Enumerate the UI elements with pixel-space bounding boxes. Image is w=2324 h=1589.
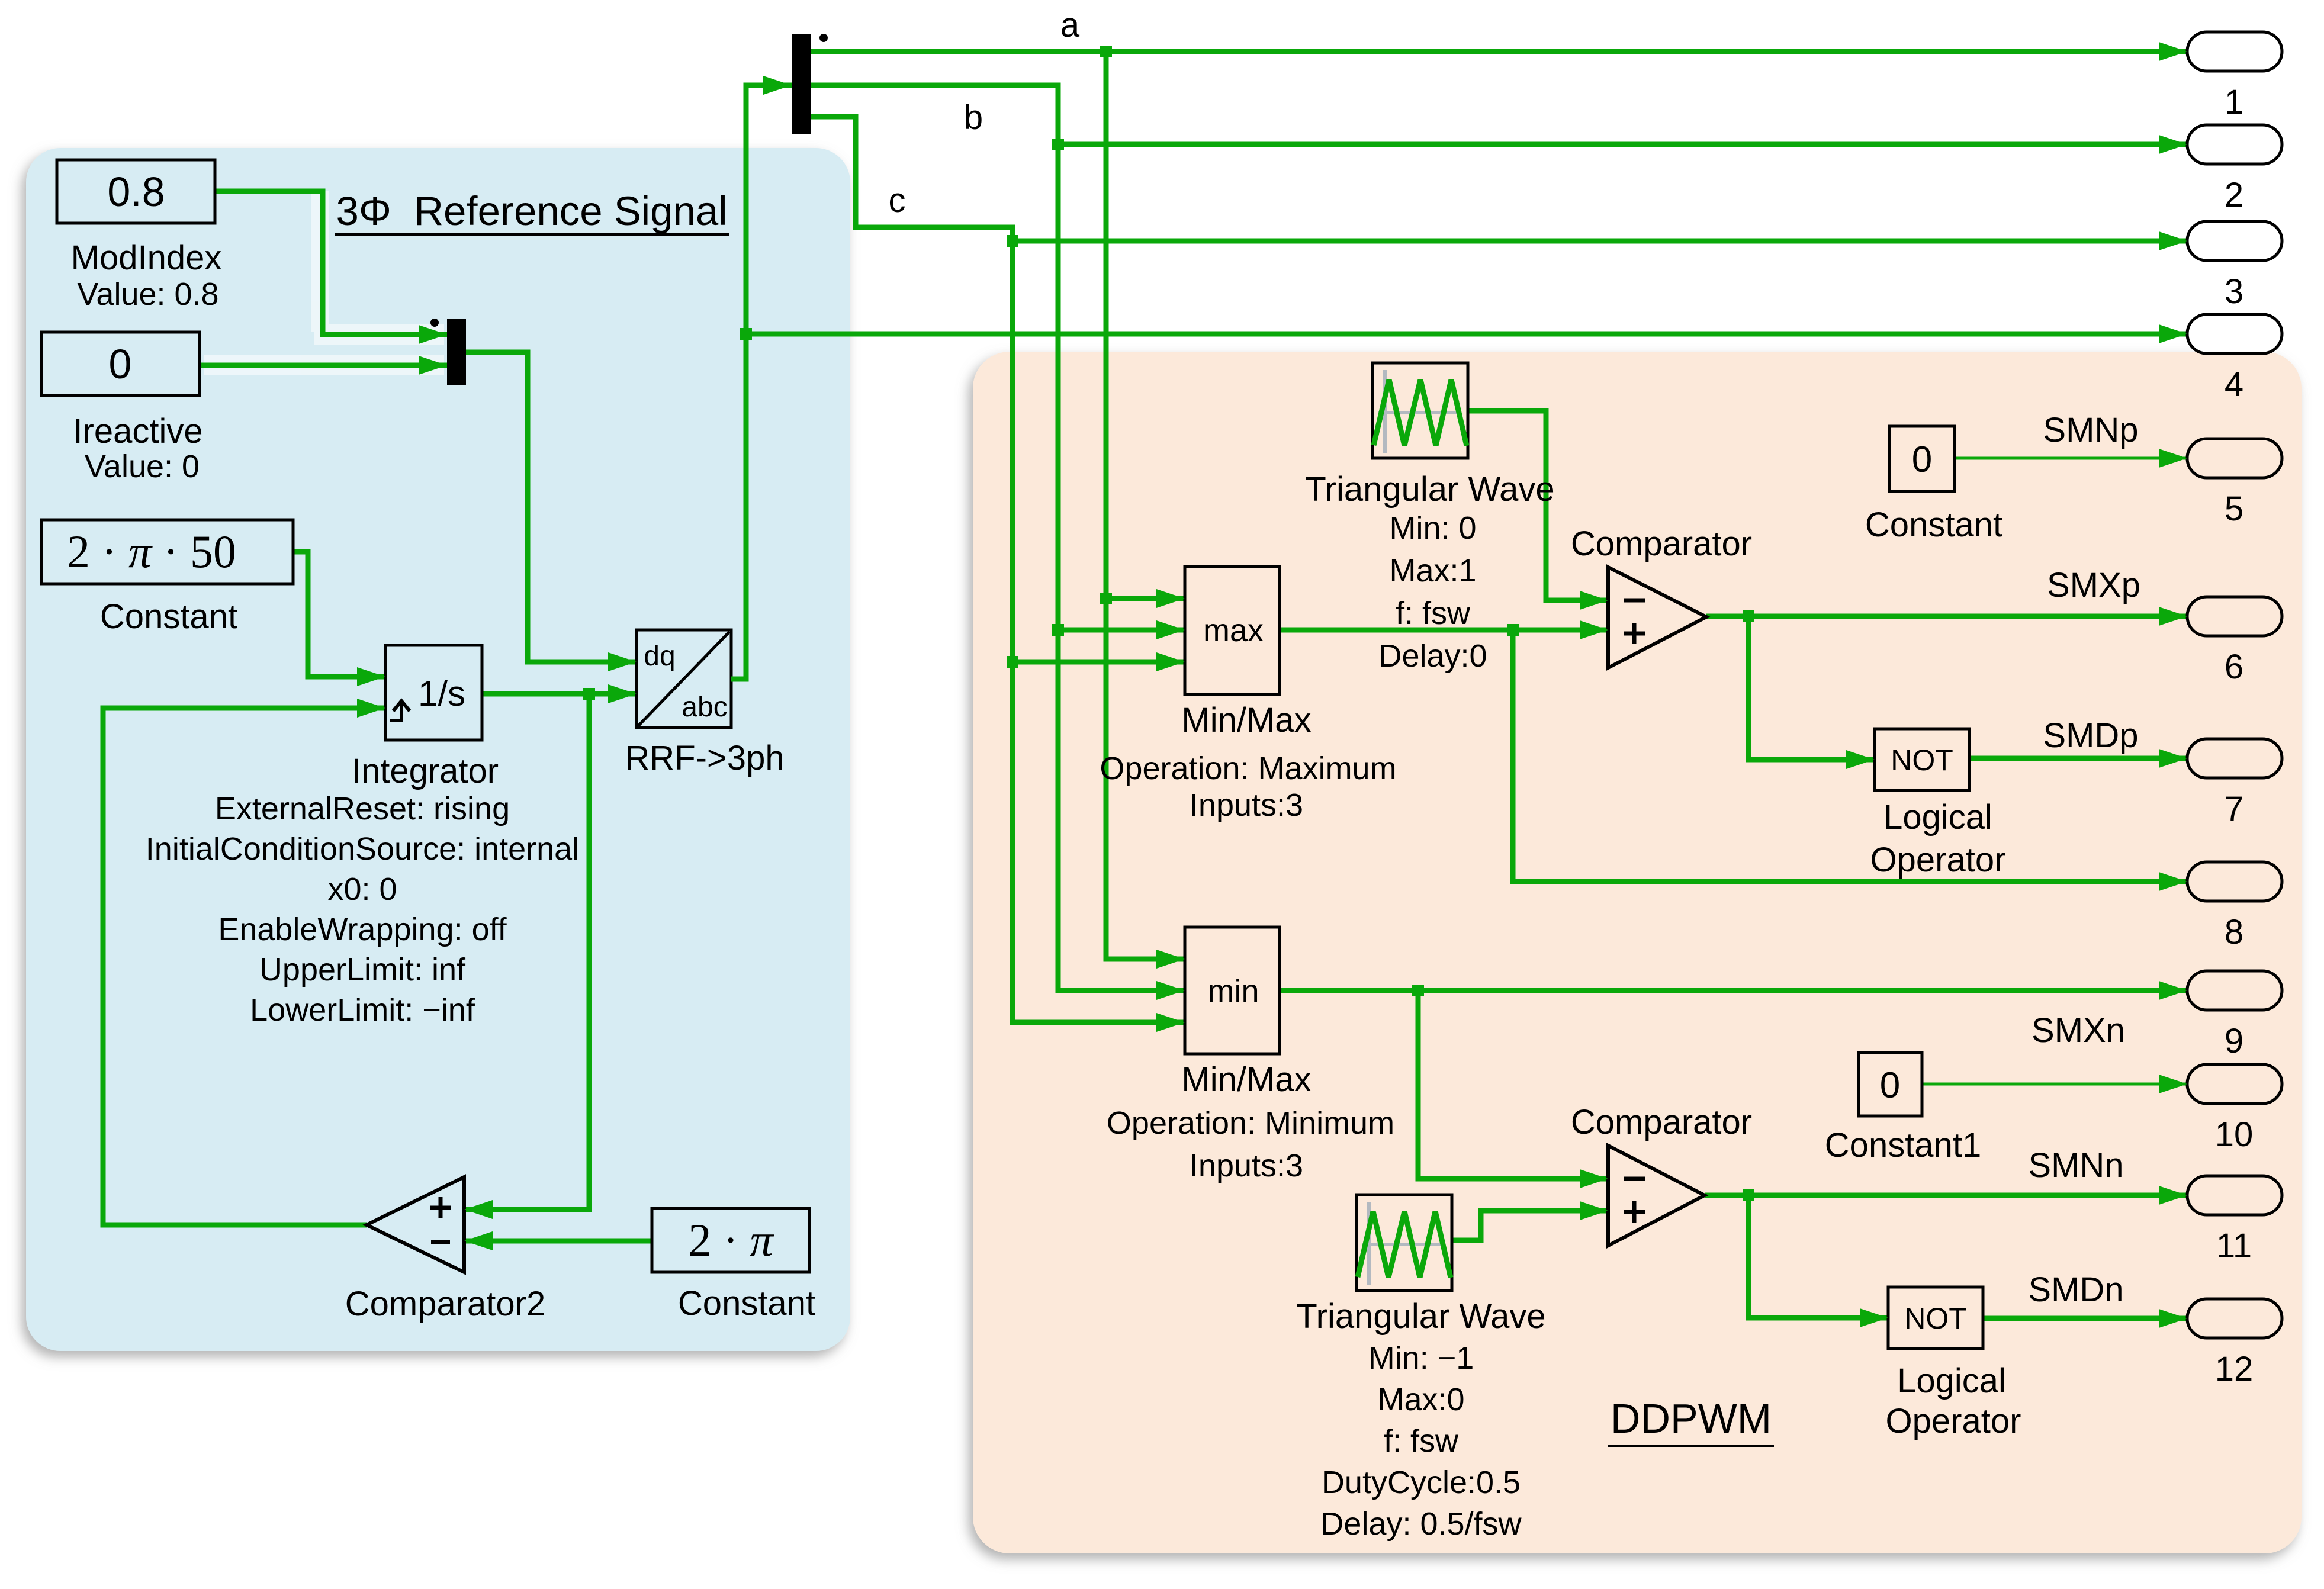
wire max tap down to outport 8	[1513, 630, 2187, 882]
node b out2 tap	[1052, 139, 1064, 150]
outport 3	[2159, 221, 2282, 311]
block min Min/Max	[1107, 927, 1394, 1183]
svg-text:Triangular Wave: Triangular Wave	[1305, 470, 1554, 509]
outport 6	[2159, 597, 2282, 686]
arrow into RRF abc	[608, 684, 637, 703]
svg-text:NOT: NOT	[1891, 744, 1953, 777]
block max Min/Max	[1100, 567, 1396, 823]
svg-text:Operation: Minimum: Operation: Minimum	[1107, 1105, 1394, 1141]
arrow into integrator in1	[357, 667, 385, 686]
svg-text:ModIndex: ModIndex	[71, 239, 222, 277]
arrow into max in3	[1156, 652, 1185, 671]
outport 8	[2159, 862, 2282, 951]
svg-text:Triangular Wave: Triangular Wave	[1296, 1297, 1545, 1336]
svg-text:Min/Max: Min/Max	[1181, 701, 1311, 739]
arrow into Comparator minus (upper)	[1580, 591, 1608, 610]
wire Constant 2pi50 to Integrator in1	[293, 552, 385, 677]
title: DDPWM	[1608, 1395, 1774, 1446]
wire NOT out to outport 7	[1969, 756, 2187, 761]
wire theta branch to Comparator2 plus	[464, 694, 589, 1210]
svg-text:11: 11	[2216, 1227, 2252, 1265]
svg-text:Comparator: Comparator	[1571, 1103, 1752, 1141]
subsystem region: DDPWM (light orange)	[973, 352, 2302, 1553]
title: 3-phase Reference Signal	[335, 188, 729, 234]
outport 10	[2159, 1064, 2282, 1154]
outport 4	[2159, 314, 2282, 404]
wire a tap to max in1	[1106, 596, 1185, 601]
constant Constant 0 (upper)	[1865, 426, 2002, 544]
svg-text:0.8: 0.8	[107, 169, 165, 215]
svg-text:Delay:0: Delay:0	[1378, 638, 1487, 674]
wire Comparator out to outport 6	[1706, 614, 2187, 619]
wire Constant 2pi to Comparator2 minus	[464, 1239, 652, 1244]
svg-text:SMXn: SMXn	[2032, 1011, 2125, 1050]
outport 5	[2159, 439, 2282, 528]
svg-text:5: 5	[2225, 490, 2243, 528]
wire RRF out up to Demux input	[731, 85, 792, 679]
svg-text:Logical: Logical	[1897, 1362, 2006, 1400]
wire Triangular Wave1 to Comparator1 plus	[1452, 1211, 1608, 1240]
wire feedback Comparator2 out to Integrator reset	[103, 708, 385, 1225]
wire Comparator1 out to outport 11	[1705, 1193, 2187, 1198]
svg-text:2: 2	[2225, 176, 2243, 214]
wire min out to outport 9	[1280, 988, 2187, 993]
wire Comparator1 tap to NOT1	[1748, 1195, 1888, 1318]
svg-text:Constant: Constant	[1865, 506, 2002, 544]
svg-text:f: fsw: f: fsw	[1384, 1423, 1459, 1459]
svg-text:abc: abc	[682, 691, 727, 723]
wire Integrator out to RRF abc input	[482, 691, 637, 697]
svg-text:Operator: Operator	[1886, 1402, 2021, 1440]
svg-text:a: a	[1060, 6, 1080, 44]
arrow into max in2	[1156, 620, 1185, 639]
node theta junction	[583, 688, 595, 700]
svg-text:3Φ Reference Signal: 3Φ Reference Signal	[336, 188, 727, 234]
wire signal c from demux	[811, 117, 1185, 1022]
wire signal b from demux	[811, 85, 1185, 990]
outport 1	[2159, 32, 2282, 121]
svg-text:Logical: Logical	[1883, 798, 1992, 837]
svg-text:Value: 0: Value: 0	[85, 449, 200, 484]
arrow into Comparator plus (upper)	[1580, 620, 1608, 639]
svg-text:0: 0	[1880, 1065, 1900, 1106]
arrow into Comparator plus (lower)	[1580, 1201, 1608, 1220]
svg-text:Comparator2: Comparator2	[345, 1285, 545, 1323]
svg-text:dq: dq	[644, 641, 675, 672]
outport 11	[2159, 1176, 2282, 1265]
svg-text:6: 6	[2225, 648, 2243, 686]
svg-text:0: 0	[109, 341, 132, 387]
wire b tap to max in2	[1058, 628, 1185, 633]
comparator U Comparator (lower)	[1571, 1103, 1752, 1246]
svg-text:Comparator: Comparator	[1571, 525, 1752, 563]
constant Constant1 0 (lower)	[1825, 1053, 1981, 1165]
source Triangular Wave (lower)	[1357, 1195, 1452, 1291]
svg-text:RRF->3ph: RRF->3ph	[625, 739, 784, 777]
comparator Comparator2 (points left)	[345, 1177, 545, 1323]
svg-text:8: 8	[2225, 913, 2243, 951]
svg-text:SMXp: SMXp	[2047, 566, 2140, 604]
gate NOT (lower) Logical Operator	[1886, 1287, 2021, 1440]
wire Comparator tap to NOT	[1748, 616, 1875, 760]
wire ModIndex to Mux in1	[215, 191, 447, 334]
svg-text:SMDp: SMDp	[2043, 716, 2138, 755]
constant Ireactive value 0	[41, 332, 203, 484]
integrator U 1/s	[385, 645, 482, 740]
svg-text:SMDn: SMDn	[2028, 1270, 2123, 1309]
svg-text:SMNn: SMNn	[2028, 1146, 2123, 1185]
wire NOT1 out to outport 12	[1983, 1316, 2187, 1321]
node max out junction	[1507, 624, 1519, 636]
svg-text:LowerLimit: −inf: LowerLimit: −inf	[250, 992, 475, 1028]
wire a vertical to min in1	[1106, 52, 1185, 959]
arrow into NOT upper	[1846, 750, 1875, 769]
svg-text:EnableWrapping: off: EnableWrapping: off	[218, 912, 507, 947]
wire tap to outport 4	[746, 332, 2187, 337]
node a junction	[1100, 46, 1112, 57]
arrow into mux in2	[419, 356, 447, 375]
wire max out to Comparator plus	[1280, 628, 1608, 633]
svg-text:UpperLimit: inf: UpperLimit: inf	[259, 952, 466, 988]
constant ModIndex value 0.8	[57, 160, 221, 312]
svg-text:0: 0	[1912, 439, 1932, 480]
arrow into mux in1	[419, 325, 447, 344]
svg-text:max: max	[1203, 613, 1264, 648]
subsystem region: 3-phase reference signal (light blue)	[26, 148, 850, 1351]
arrow into demux	[763, 76, 792, 95]
svg-text:Min/Max: Min/Max	[1181, 1060, 1311, 1099]
svg-text:InitialConditionSource: intern: InitialConditionSource: internal	[146, 831, 579, 867]
wire c tap to outport 3	[1012, 239, 2187, 244]
constant 2*pi	[652, 1208, 815, 1323]
arrow into min in2	[1156, 981, 1185, 1000]
node c to max tap	[1007, 656, 1018, 668]
wire Constant 0 to outport 5	[1955, 457, 2187, 460]
svg-text:Constant: Constant	[100, 597, 237, 636]
svg-text:1/s: 1/s	[418, 674, 465, 713]
arrow into max in1	[1156, 589, 1185, 608]
source Triangular Wave (upper)	[1372, 363, 1468, 458]
svg-text:ExternalReset: rising: ExternalReset: rising	[215, 791, 510, 826]
svg-text:Max:0: Max:0	[1377, 1382, 1464, 1417]
label Triangular Wave parameters	[1305, 470, 1554, 674]
svg-text:Inputs:3: Inputs:3	[1190, 787, 1303, 823]
svg-text:Constant1: Constant1	[1825, 1126, 1981, 1165]
svg-text:SMNp: SMNp	[2043, 411, 2138, 449]
arrow into min in3	[1156, 1013, 1185, 1032]
gate NOT (upper) Logical Operator	[1870, 729, 2006, 879]
arrow into integrator reset	[357, 699, 385, 718]
arrow into RRF dq	[608, 652, 637, 671]
wire c tap to max in3	[1012, 660, 1185, 665]
svg-text:b: b	[964, 98, 983, 137]
halo under mux input wires	[204, 191, 444, 365]
svg-text:2 · π · 50: 2 · π · 50	[67, 526, 236, 577]
node Comparator1 out junction	[1743, 1189, 1754, 1201]
mux (2 inputs)	[430, 319, 466, 385]
node out4 tap junction	[740, 328, 752, 340]
transform block RRF to 3ph (dq/abc)	[625, 630, 784, 777]
svg-text:4: 4	[2225, 365, 2243, 404]
svg-text:Operator: Operator	[1870, 841, 2006, 879]
wire Triangular Wave to Comparator minus	[1468, 411, 1608, 600]
arrow into Comparator minus (lower)	[1580, 1169, 1608, 1188]
outport 9	[2159, 971, 2282, 1060]
wire b tap to outport 2	[1058, 142, 2187, 147]
node Comparator out junction	[1743, 610, 1754, 622]
outport 2	[2159, 125, 2282, 214]
node c out3 tap	[1007, 235, 1018, 247]
node b to max tap	[1052, 624, 1064, 636]
node min out junction	[1412, 985, 1424, 996]
svg-text:7: 7	[2225, 790, 2243, 828]
svg-text:Constant: Constant	[678, 1284, 815, 1323]
svg-text:Min: −1: Min: −1	[1368, 1340, 1474, 1376]
svg-text:Delay: 0.5/fsw: Delay: 0.5/fsw	[1320, 1506, 1522, 1542]
outport 7	[2159, 739, 2282, 828]
svg-text:DDPWM: DDPWM	[1611, 1395, 1772, 1442]
wire signal a to outport 1	[811, 49, 2187, 54]
svg-text:1: 1	[2225, 83, 2243, 121]
svg-text:f: fsw: f: fsw	[1396, 596, 1471, 631]
wire min tap to Comparator1 minus	[1418, 990, 1608, 1179]
constant 2*pi*50	[41, 520, 293, 636]
arrow into Comparator2 plus	[464, 1200, 493, 1219]
svg-text:3: 3	[2225, 272, 2243, 311]
svg-text:Value: 0.8: Value: 0.8	[77, 276, 218, 312]
arrow into min in1	[1156, 950, 1185, 969]
arrow into Comparator2 minus	[464, 1231, 493, 1250]
svg-text:NOT: NOT	[1904, 1302, 1967, 1335]
wire Ireactive to Mux in2	[200, 363, 447, 368]
demux (3 outputs)	[792, 34, 828, 134]
svg-text:DutyCycle:0.5: DutyCycle:0.5	[1322, 1465, 1521, 1500]
node a to max tap	[1100, 593, 1112, 604]
svg-text:10: 10	[2215, 1115, 2254, 1154]
wire Constant1 to outport 10	[1922, 1083, 2187, 1086]
svg-text:Max:1: Max:1	[1389, 553, 1476, 588]
svg-text:c: c	[889, 181, 906, 220]
svg-text:x0: 0: x0: 0	[327, 871, 397, 907]
svg-text:Inputs:3: Inputs:3	[1190, 1148, 1303, 1183]
svg-text:Integrator: Integrator	[352, 752, 499, 790]
svg-text:12: 12	[2215, 1350, 2254, 1388]
svg-text:Ireactive: Ireactive	[73, 412, 202, 451]
svg-text:9: 9	[2225, 1022, 2243, 1060]
label Triangular Wave (lower) parameters	[1296, 1297, 1545, 1542]
svg-text:2 · π: 2 · π	[688, 1214, 774, 1266]
svg-text:min: min	[1207, 973, 1259, 1009]
svg-text:Operation: Maximum: Operation: Maximum	[1100, 751, 1396, 786]
label Integrator parameters	[146, 752, 579, 1028]
outport 12	[2159, 1299, 2282, 1388]
comparator U Comparator (upper)	[1571, 525, 1752, 668]
wire Mux out to RRF dq input	[466, 352, 637, 662]
arrow into NOT lower	[1860, 1308, 1888, 1327]
svg-text:Min: 0: Min: 0	[1389, 510, 1476, 546]
